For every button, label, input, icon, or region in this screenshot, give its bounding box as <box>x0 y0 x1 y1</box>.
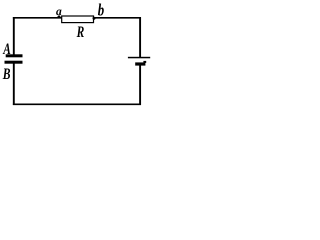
battery short plate <box>135 62 145 65</box>
resistor R <box>62 16 94 23</box>
capacitor plate A (top) <box>6 54 23 57</box>
capacitor plate B (bottom) <box>5 61 23 64</box>
wire bottom <box>13 103 141 105</box>
battery short plate nub <box>143 61 146 63</box>
svg-text:b: b <box>98 2 104 20</box>
svg-text:a: a <box>56 6 62 18</box>
wire left upper <box>13 17 15 55</box>
node a dot <box>58 15 61 18</box>
wire right lower <box>139 65 141 105</box>
svg-text:A: A <box>2 40 10 57</box>
battery long plate <box>128 57 150 59</box>
node b dot <box>93 17 96 20</box>
svg-text:R: R <box>76 25 85 42</box>
wire right upper <box>139 17 141 57</box>
svg-text:B: B <box>2 65 11 82</box>
wire top <box>13 17 141 19</box>
wire left lower <box>13 63 15 105</box>
